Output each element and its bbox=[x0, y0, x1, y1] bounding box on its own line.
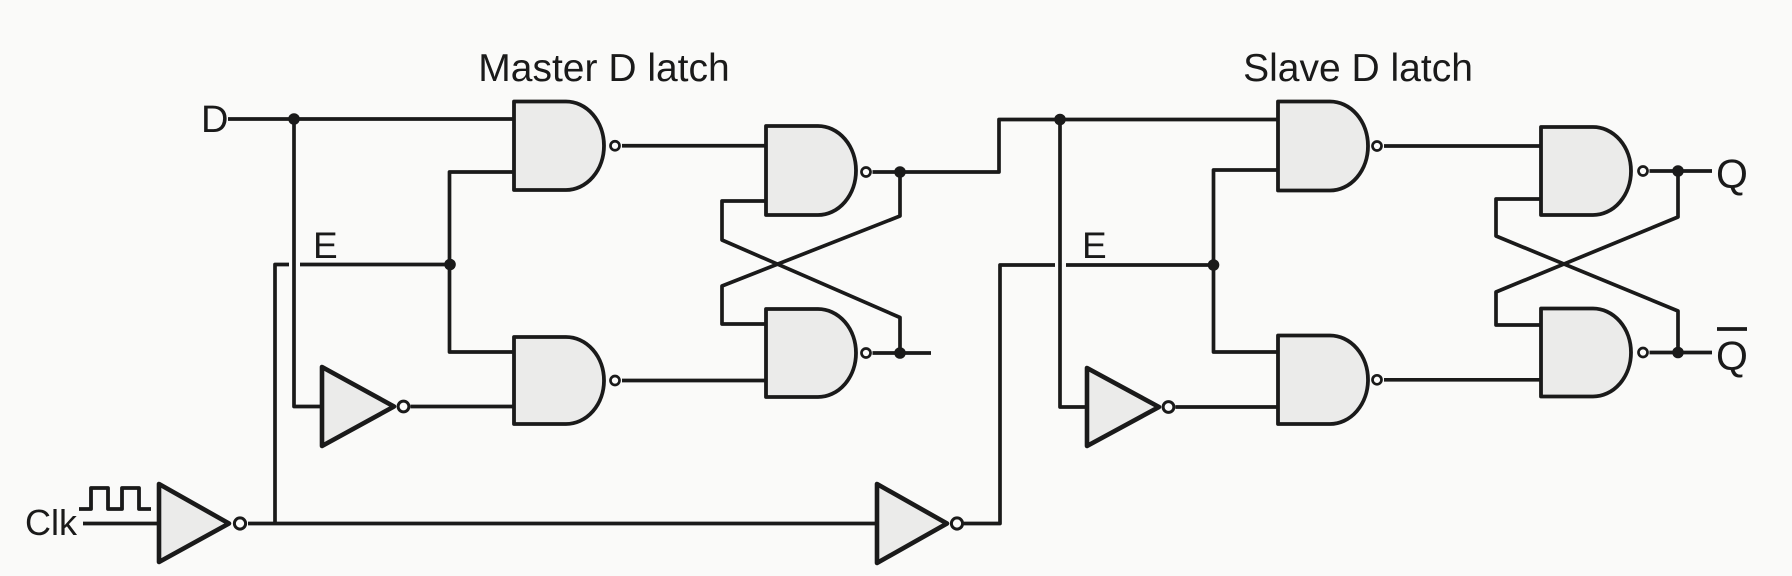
nand gate G8 (slave SR latch, bottom) bbox=[1541, 309, 1631, 397]
bubble G2 bbox=[862, 168, 871, 177]
bubble G8 bbox=[1639, 348, 1648, 357]
wire: slave feedback G6 output to G8 input bbox=[1496, 171, 1678, 325]
bubble G7 bbox=[1373, 375, 1382, 384]
bubble G6 bbox=[1639, 167, 1648, 176]
wire: U1 output to G3 bbox=[411, 405, 515, 409]
wire: D input to gate G1 bbox=[228, 117, 514, 121]
inverter U1 (master data inverter) bbox=[322, 367, 394, 446]
svg-text:E: E bbox=[313, 225, 338, 266]
svg-text:E: E bbox=[1082, 225, 1107, 266]
bubble U4 bbox=[951, 518, 962, 529]
wire: clock-bar line to middle inverter U4 bbox=[248, 522, 877, 526]
wire: Clk input to inverter U2 bbox=[83, 522, 159, 526]
bubble G3 bbox=[611, 376, 620, 385]
node: Q junction bbox=[1672, 165, 1684, 177]
nand gate G1 (master, data gate) bbox=[514, 102, 604, 191]
node: slave data junction bbox=[1054, 114, 1066, 126]
svg-text:Master D latch: Master D latch bbox=[478, 47, 729, 90]
inverter U3 (slave data inverter) bbox=[1087, 368, 1159, 446]
clock waveform symbol bbox=[79, 488, 151, 509]
bubble G4 bbox=[862, 349, 871, 358]
inverter U4 (middle inverter, restores clock for slave) bbox=[877, 484, 947, 563]
nand gate G7 (slave, not-data gate) bbox=[1278, 336, 1368, 425]
svg-text:Q: Q bbox=[1716, 151, 1748, 197]
svg-text:Slave D latch: Slave D latch bbox=[1243, 47, 1473, 90]
wire: D branch down to inverter U1 bbox=[294, 119, 322, 407]
svg-text:D: D bbox=[201, 99, 228, 141]
svg-text:Q: Q bbox=[1716, 333, 1748, 379]
bubble U3 bbox=[1163, 402, 1174, 413]
svg-text:Clk: Clk bbox=[25, 502, 78, 543]
nand gate G5 (slave, data gate) bbox=[1278, 102, 1368, 191]
wire: G2 output to slave stage bbox=[873, 120, 1279, 173]
wire: U3 output to G7 bbox=[1176, 405, 1279, 409]
node: Q-bar junction bbox=[1672, 347, 1684, 359]
wire: G7 output to G8 bbox=[1384, 378, 1541, 382]
wire: slave feedback G8 output to G6 input bbox=[1496, 199, 1678, 353]
node: G4 output junction bbox=[894, 347, 906, 359]
wire: E rail to junction bbox=[300, 263, 451, 267]
wire: slave E rail to junction bbox=[1066, 263, 1215, 267]
wire: master feedback G2 output to G4 input bbox=[722, 172, 900, 324]
nand gate G3 (master, not-data gate) bbox=[514, 337, 604, 424]
node: D junction bbox=[288, 113, 300, 125]
nand gate G2 (master SR latch, top) bbox=[766, 126, 856, 215]
wire: G4 output stub bbox=[873, 351, 932, 355]
inverter U2 (clock inverter) bbox=[159, 484, 229, 562]
nand gate G4 (master SR latch, bottom) bbox=[766, 309, 856, 397]
node: E junction bbox=[444, 259, 456, 271]
bubble U1 bbox=[398, 401, 409, 412]
wire: G5 output to G6 bbox=[1384, 144, 1541, 148]
bubble G5 bbox=[1373, 142, 1382, 151]
wire: G1 output to G2 bbox=[622, 144, 766, 148]
bubble U2 bbox=[234, 518, 245, 529]
node: slave E junction bbox=[1208, 259, 1220, 271]
wire: G6 output to Q bbox=[1650, 169, 1713, 173]
wire: slave data down to inverter U3 bbox=[1060, 120, 1087, 408]
wire: G8 output to Q-bar bbox=[1650, 351, 1713, 355]
wire: slave E from middle inverter up to rail bbox=[964, 265, 1055, 524]
wire: slave E vertical feeding G5 and G7 bbox=[1214, 170, 1279, 352]
wire: Q-bar overline bbox=[1717, 327, 1747, 331]
wire: G3 output to G4 bbox=[622, 379, 766, 383]
node: G2 output junction bbox=[894, 166, 906, 178]
bubble G1 bbox=[611, 141, 620, 150]
wire: E vertical feeding G1 and G3 bbox=[450, 172, 515, 352]
nand gate G6 (slave SR latch, top) bbox=[1541, 127, 1631, 215]
wire: E from clock inverter up to E rail bbox=[275, 265, 289, 524]
wire: master feedback G4 output to G2 input bbox=[722, 201, 900, 353]
